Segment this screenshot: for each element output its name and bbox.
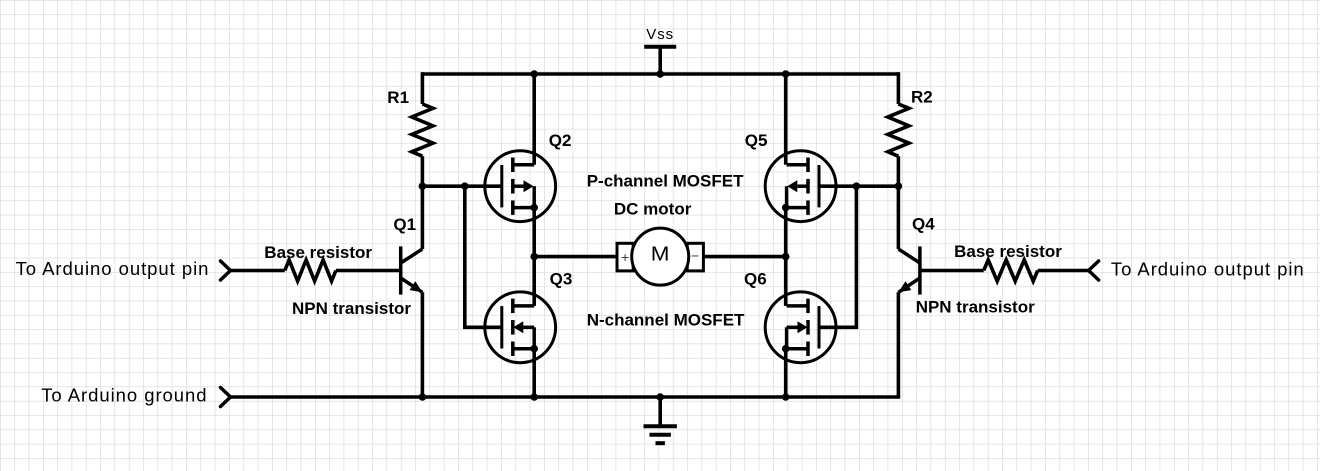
- wire left gate branch down: [465, 186, 502, 327]
- wire R1 top lead: [421, 72, 425, 104]
- p-channel mosfet Q2: [485, 151, 556, 222]
- svg-text:Vss: Vss: [646, 26, 674, 43]
- svg-text:N-channel MOSFET: N-channel MOSFET: [587, 311, 745, 330]
- n-channel mosfet Q3: [485, 292, 556, 363]
- junction motor left node: [530, 253, 538, 261]
- wire base resistor to Q4 base: [920, 269, 984, 273]
- ground symbol: [644, 426, 677, 443]
- label Q4: [912, 214, 935, 233]
- resistor R1: [412, 104, 433, 156]
- wire motor right lead: [703, 255, 785, 259]
- wire Q3 source to ground rail: [532, 349, 536, 397]
- svg-text:Base resistor: Base resistor: [264, 243, 372, 262]
- junction top rail Q2 source: [530, 70, 538, 78]
- junction top rail at Vss: [656, 70, 664, 78]
- wire Q4 collector up: [897, 186, 901, 249]
- junction ground rail Q1 emitter: [419, 393, 427, 401]
- wire top rail: [422, 72, 898, 76]
- wire R1 bottom lead: [421, 156, 425, 186]
- junction Q6 source-body: [782, 345, 790, 353]
- svg-text:+: +: [621, 249, 629, 265]
- label Base resistor left: [264, 243, 372, 262]
- motor M1 body: [632, 228, 689, 285]
- junction top rail Q5 source: [782, 70, 790, 78]
- wire Q6 drain to motor node: [784, 257, 788, 306]
- junction motor right node: [782, 253, 790, 261]
- wire Q3 drain to motor node: [532, 257, 536, 306]
- label Q1: [393, 215, 416, 234]
- label Q2: [549, 131, 572, 150]
- svg-text:R2: R2: [911, 88, 933, 107]
- wire ground rail: [231, 395, 901, 399]
- motor M1 terminal - block: [687, 243, 703, 271]
- junction Q5 body-drain: [782, 204, 790, 212]
- wire Vss stub: [658, 47, 662, 74]
- label Q3: [550, 270, 573, 289]
- wire right gate branch down: [819, 186, 856, 327]
- svg-text:Base resistor: Base resistor: [954, 242, 1062, 261]
- wire left gate horizontal: [422, 184, 501, 188]
- svg-text:Q1: Q1: [393, 215, 416, 234]
- connector right input chevron: [1089, 261, 1099, 280]
- connector ground input chevron: [221, 388, 231, 407]
- junction Q2 body-drain: [530, 204, 538, 212]
- connector left input chevron: [221, 261, 231, 280]
- svg-text:R1: R1: [387, 88, 409, 107]
- svg-text:NPN transistor: NPN transistor: [916, 297, 1035, 316]
- label M motor: [651, 244, 670, 266]
- label Base resistor right: [954, 242, 1062, 261]
- junction Q3 source-body: [530, 345, 538, 353]
- wire motor left lead: [534, 255, 617, 259]
- svg-text:To Arduino output pin: To Arduino output pin: [16, 258, 210, 279]
- label N-channel MOSFET: [587, 311, 745, 330]
- svg-text:DC motor: DC motor: [614, 199, 692, 218]
- label Vss: [646, 26, 674, 43]
- label To Arduino ground: [41, 385, 207, 406]
- wire ground stub: [658, 397, 662, 426]
- npn transistor Q1: [401, 246, 423, 294]
- junction right gate branch: [853, 182, 861, 190]
- label NPN transistor left: [292, 299, 411, 318]
- wire right input to base resistor: [1038, 269, 1089, 273]
- wire Q5 source to top rail: [784, 74, 788, 165]
- node A left gate net: [419, 182, 427, 190]
- wire base resistor to Q1 base: [336, 269, 401, 273]
- svg-text:Q2: Q2: [549, 131, 572, 150]
- junction ground rail ground tap: [656, 393, 664, 401]
- svg-text:M: M: [651, 244, 670, 266]
- svg-text:To Arduino ground: To Arduino ground: [41, 385, 207, 406]
- wire Q1 emitter down: [421, 292, 425, 397]
- label R2: [911, 88, 933, 107]
- label To Arduino output pin right: [1111, 258, 1305, 279]
- label P-channel MOSFET: [587, 172, 744, 191]
- wire left input to base resistor: [231, 269, 285, 273]
- wire right gate horizontal: [819, 184, 898, 188]
- junction ground rail Q6 source: [782, 393, 790, 401]
- svg-text:NPN transistor: NPN transistor: [292, 299, 411, 318]
- junction ground rail Q3 source: [530, 393, 538, 401]
- p-channel mosfet Q5: [765, 151, 836, 222]
- pin + motor positive: [621, 249, 629, 265]
- node B right gate net: [895, 182, 903, 190]
- pin − motor negative: [691, 248, 699, 264]
- junction left gate branch: [461, 182, 469, 190]
- wire Q2 drain to motor node: [532, 208, 536, 257]
- svg-text:P-channel MOSFET: P-channel MOSFET: [587, 172, 744, 191]
- svg-text:Q5: Q5: [745, 131, 768, 150]
- label Q6: [744, 270, 767, 289]
- svg-text:−: −: [691, 248, 699, 264]
- wire Q1 collector up: [421, 186, 425, 249]
- wire R2 bottom lead: [897, 156, 901, 186]
- svg-text:Q6: Q6: [744, 270, 767, 289]
- wire Q4 emitter down: [897, 292, 901, 397]
- resistor R2: [888, 104, 909, 156]
- label NPN transistor right: [916, 297, 1035, 316]
- svg-text:Q3: Q3: [550, 270, 573, 289]
- n-channel mosfet Q6: [765, 292, 836, 363]
- wire R2 top lead: [897, 72, 901, 104]
- wire Q2 source to top rail: [532, 74, 536, 165]
- svg-text:To Arduino output pin: To Arduino output pin: [1111, 258, 1305, 279]
- svg-text:Q4: Q4: [912, 214, 935, 233]
- npn transistor Q4: [898, 246, 920, 294]
- resistor base left: [285, 260, 336, 281]
- motor M1 terminal + block: [617, 243, 633, 271]
- label R1: [387, 88, 409, 107]
- label DC motor: [614, 199, 692, 218]
- wire Q5 drain to motor node: [784, 208, 788, 257]
- wire Q6 source to ground rail: [784, 349, 788, 397]
- net Vss power bar: [644, 45, 676, 49]
- resistor base right: [984, 260, 1038, 281]
- label Q5: [745, 131, 768, 150]
- label To Arduino output pin left: [16, 258, 210, 279]
